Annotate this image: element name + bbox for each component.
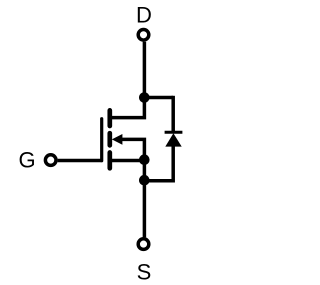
- diode D1 cathode bar: [165, 131, 183, 134]
- wire drain to channel: [111, 96, 144, 118]
- wire diode bottom branch: [144, 146, 173, 181]
- wire drain to diode branch: [144, 96, 173, 100]
- transistor Q1 source bar: [107, 153, 112, 169]
- diode D1 anode triangle: [165, 133, 181, 146]
- node source junction 2: [139, 175, 150, 186]
- transistor Q1 body bar: [107, 133, 112, 145]
- transistor Q1 gate line: [100, 119, 103, 161]
- node source junction 1: [139, 154, 150, 165]
- svg-text:G: G: [18, 148, 35, 173]
- wire source vertical: [143, 181, 147, 238]
- wire source bar to node: [111, 159, 144, 163]
- svg-text:D: D: [136, 3, 152, 28]
- wire gate horizontal: [58, 159, 102, 162]
- diode D1 cathode wire: [171, 96, 175, 132]
- wire drain vertical: [143, 42, 147, 98]
- node drain junction: [139, 92, 150, 103]
- svg-text:S: S: [137, 260, 152, 285]
- transistor Q1 drain bar: [107, 110, 112, 126]
- transistor Q1 body arrow: [112, 134, 123, 145]
- terminal S: [138, 239, 149, 250]
- terminal G: [45, 155, 56, 166]
- wire source junction link: [143, 160, 147, 180]
- terminal D: [138, 30, 149, 41]
- wire body to source: [122, 139, 145, 160]
